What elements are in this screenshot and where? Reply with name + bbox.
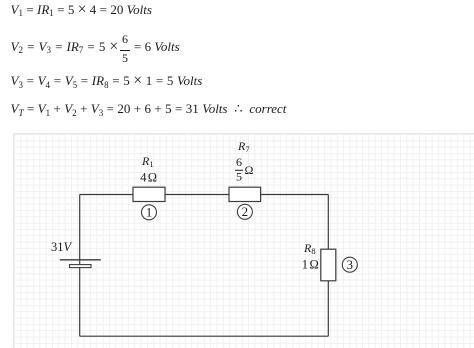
wire: left branch down through battery	[79, 195, 81, 337]
resistor R7 body	[229, 187, 261, 201]
node marker 1 circle	[142, 205, 157, 220]
svg-text:6: 6	[236, 155, 242, 169]
node marker 2 circle	[237, 204, 252, 219]
equation line 2 fraction numerator	[122, 32, 128, 47]
svg-text:2: 2	[242, 204, 249, 219]
battery B1 long plate (+)	[60, 259, 101, 261]
battery B1 short plate (-)	[70, 265, 92, 268]
equation line 3	[11, 73, 203, 89]
resistor R8 body (vertical)	[321, 249, 336, 281]
wire: top from node A to node B	[80, 194, 329, 196]
equation line 2	[11, 39, 119, 55]
resistor R1 body	[133, 187, 165, 201]
svg-text:R1: R1	[141, 154, 154, 169]
equation line 4	[11, 101, 287, 117]
svg-text:R8: R8	[303, 241, 316, 256]
equation line 2 fraction bar	[120, 50, 130, 51]
grid paper panel	[13, 133, 474, 348]
wire: right branch down through R8	[327, 195, 329, 337]
svg-text:4Ω: 4Ω	[140, 171, 157, 185]
svg-text:5: 5	[236, 170, 242, 184]
equation line 2 fraction denominator	[122, 51, 128, 66]
equation line 1	[11, 2, 152, 18]
svg-text:R7: R7	[237, 139, 250, 154]
svg-text:1: 1	[146, 205, 153, 220]
wire: bottom return	[80, 335, 329, 337]
svg-text:3: 3	[347, 257, 354, 272]
svg-text:1Ω: 1Ω	[302, 258, 319, 272]
node marker 3 circle	[342, 257, 357, 272]
equation line 2 tail	[134, 39, 180, 55]
svg-text:Ω: Ω	[245, 163, 254, 177]
svg-text:31V: 31V	[51, 240, 73, 254]
